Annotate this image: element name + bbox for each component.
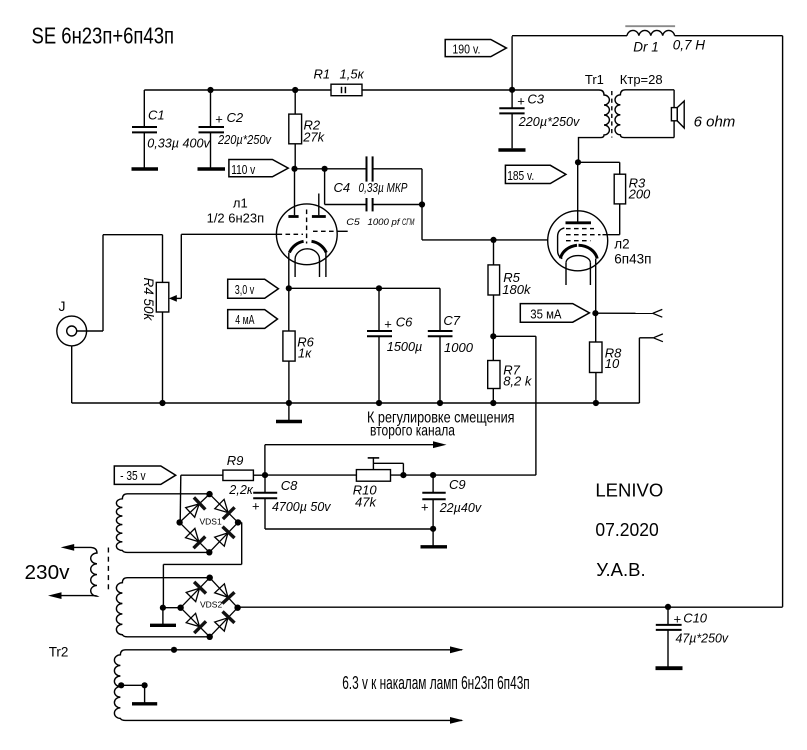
svg-text:VDS2: VDS2 — [200, 599, 222, 609]
node B+ junction C2 — [207, 87, 213, 93]
resistor R7 8,2k — [488, 336, 533, 403]
svg-text:220µ*250v: 220µ*250v — [518, 114, 581, 129]
ground symbol C9 — [421, 529, 448, 547]
capacitor C9 22µ40v — [421, 475, 483, 529]
label 07.2020 — [595, 519, 658, 540]
svg-text:C1: C1 — [148, 108, 165, 123]
svg-text:2,2к: 2,2к — [228, 482, 253, 497]
label второго канала — [370, 423, 455, 440]
svg-text:27k: 27k — [302, 130, 325, 145]
capacitor C4 0,33µ МКР — [334, 156, 423, 204]
wire grid row to L2 — [494, 239, 548, 241]
resistor R9 2,2к — [181, 453, 265, 497]
svg-text:+: + — [674, 611, 682, 626]
svg-text:J: J — [59, 298, 66, 314]
svg-text:+: + — [215, 112, 223, 127]
node ground rail at R8 — [593, 400, 599, 406]
node coupling junction — [419, 201, 425, 207]
flag label 3,0 v — [228, 279, 279, 298]
transformer Tr2 core — [107, 548, 109, 590]
flag label 185 v. — [505, 165, 566, 183]
transformer Tr2 primary 230v — [48, 544, 97, 599]
svg-text:+: + — [517, 93, 525, 108]
node 110v plate junction — [291, 166, 297, 172]
wire L1 grid feed — [177, 234, 278, 298]
capacitor C8 4700µ 50v — [252, 475, 433, 529]
transformer Tr1 primary — [512, 90, 609, 162]
svg-text:SE 6н23п+6п43п: SE 6н23п+6п43п — [32, 23, 175, 49]
heater winding center tap to ground — [118, 682, 157, 704]
label LENIVO — [595, 480, 663, 501]
svg-text:C3: C3 — [527, 92, 544, 107]
node ground rail at R4 — [159, 400, 165, 406]
svg-text:C7: C7 — [443, 313, 460, 328]
wire B+ row — [238, 606, 783, 608]
svg-text:второго канала: второго канала — [370, 423, 455, 440]
speaker 6 ohm — [671, 90, 735, 138]
svg-text:R4 50k: R4 50k — [141, 278, 156, 322]
svg-text:R9: R9 — [227, 453, 244, 468]
wire -35v to VDS1 minus — [179, 475, 182, 522]
flag label 4 мА — [228, 310, 278, 329]
wire VDS1 plus zigzag to ground node — [163, 522, 241, 607]
node ground rail at C7 — [437, 400, 443, 406]
node 185v junction — [575, 159, 581, 165]
potentiometer R10 47k — [353, 457, 433, 509]
transformer Tr2 secondary 1 — [116, 494, 209, 553]
transformer Tr1 core — [611, 91, 613, 138]
svg-text:220µ*250v: 220µ*250v — [217, 132, 272, 147]
wire ground rail — [163, 402, 640, 404]
svg-text:110 v: 110 v — [231, 163, 256, 177]
connector arrow out 1 — [653, 309, 663, 317]
svg-text:C2: C2 — [227, 110, 244, 125]
capacitor C1 0,33µ 400v — [132, 90, 211, 168]
svg-text:0,7 H: 0,7 H — [673, 37, 706, 52]
connector arrow out 2 — [653, 334, 663, 342]
svg-text:C9: C9 — [449, 477, 466, 492]
svg-text:R1: R1 — [314, 67, 331, 82]
label У.А.В. — [596, 559, 645, 580]
flag label 190 v. — [445, 40, 506, 57]
node ground rail at R7 — [490, 400, 496, 406]
transformer Tr2 heater winding 6.3v — [114, 650, 462, 721]
potentiometer R4 50k — [141, 235, 177, 403]
svg-text:6п43п: 6п43п — [614, 252, 651, 267]
wire cathode row — [289, 287, 440, 289]
svg-text:1000: 1000 — [444, 340, 474, 355]
label Tr2 — [49, 644, 69, 659]
transformer Tr1 secondary — [615, 90, 674, 138]
svg-text:10: 10 — [605, 356, 620, 371]
wire cathode to connector — [595, 312, 652, 314]
wire plate node to C4 branch — [295, 168, 367, 170]
svg-text:л2: л2 — [614, 236, 629, 251]
node C9 top — [430, 472, 436, 478]
node ground rail at C6 — [376, 400, 382, 406]
svg-text:У.А.В.: У.А.В. — [596, 559, 645, 580]
wire top rail left (C1 to R1) — [144, 89, 331, 91]
label Tr1 — [585, 72, 604, 87]
resistor R1 1,5к — [314, 67, 365, 96]
svg-text:1к: 1к — [298, 346, 312, 361]
ground C3 — [498, 148, 525, 151]
svg-text:185 v.: 185 v. — [507, 169, 534, 183]
wire bias out arrow — [265, 445, 434, 475]
resistor R5 180k — [488, 240, 532, 336]
svg-text:180k: 180k — [502, 282, 532, 297]
label Ктр=28 — [620, 72, 663, 87]
capacitor C2 220µ*250v — [199, 90, 273, 168]
svg-text:4700µ 50v: 4700µ 50v — [272, 499, 332, 514]
wire jack ground leg — [72, 346, 163, 403]
ground C10 — [656, 666, 683, 670]
wire jack to R4 top — [77, 235, 163, 331]
node L1 cathode — [286, 285, 292, 291]
svg-text:C6: C6 — [396, 314, 413, 329]
wire right rail — [782, 36, 784, 607]
node R10 wiper junction — [400, 472, 406, 478]
transformer Tr2 secondary 2 — [116, 578, 209, 637]
svg-text:47µ*250v: 47µ*250v — [676, 630, 730, 645]
svg-text:Tr1: Tr1 — [585, 72, 604, 87]
svg-text:LENIVO: LENIVO — [595, 480, 663, 501]
arrow to second channel — [433, 441, 447, 448]
label К регулировке смещения — [367, 409, 515, 426]
svg-text:07.2020: 07.2020 — [595, 519, 658, 540]
node 190v junction — [509, 87, 515, 93]
svg-text:1,5к: 1,5к — [340, 67, 365, 82]
capacitor C3 220µ*250v — [499, 90, 580, 148]
svg-text:0,33µ 400v: 0,33µ 400v — [147, 136, 211, 151]
capacitor C7 1000 — [428, 288, 474, 403]
node R5 top junction — [490, 237, 496, 243]
ground symbol main rail — [276, 403, 302, 422]
connector J input jack — [57, 298, 87, 346]
svg-text:4 мА: 4 мА — [235, 313, 255, 327]
svg-text:1000 pf: 1000 pf — [368, 217, 402, 227]
node C10 junction — [665, 604, 671, 610]
svg-text:1/2 6н23п: 1/2 6н23п — [207, 210, 265, 225]
svg-text:C4: C4 — [334, 180, 351, 195]
node B+ junction R2 — [292, 87, 298, 93]
svg-text:Dr 1: Dr 1 — [633, 39, 659, 54]
node C9 bottom — [430, 526, 436, 532]
ground symbol VDS bridges — [150, 608, 176, 626]
tube L2 beam tetrode 6п43п — [548, 162, 652, 313]
svg-text:0,33µ МКР: 0,33µ МКР — [359, 180, 408, 195]
capacitor C6 1500µ — [367, 288, 422, 403]
ground C2 — [198, 167, 226, 170]
resistor R3 200 — [578, 162, 651, 234]
svg-text:л1: л1 — [233, 196, 248, 211]
svg-text:8,2 k: 8,2 k — [503, 374, 533, 389]
rectifier bridge VDS1 — [176, 491, 241, 556]
svg-text:22µ40v: 22µ40v — [439, 500, 483, 515]
label 6.3v heater — [342, 673, 530, 693]
svg-text:190 v.: 190 v. — [452, 42, 480, 56]
label 230v — [25, 561, 71, 584]
svg-text:VDS1: VDS1 — [200, 517, 222, 527]
svg-text:C5: C5 — [346, 217, 361, 227]
node R5/R7 bias junction — [490, 333, 496, 339]
wire rail to connector 2 — [639, 338, 653, 403]
svg-text:Ктр=28: Ктр=28 — [620, 72, 663, 87]
wire C5 branch down — [325, 169, 367, 205]
node C6 top — [376, 285, 382, 291]
flag label 110 v — [229, 160, 288, 177]
svg-text:+: + — [384, 317, 392, 332]
resistor R2 27k — [289, 90, 326, 169]
svg-text:- 35 v: - 35 v — [120, 469, 146, 483]
svg-text:200: 200 — [628, 187, 651, 202]
resistor R8 10 — [590, 313, 623, 403]
svg-text:3,0 v: 3,0 v — [235, 283, 255, 297]
title SE 6н23п+6п43п — [32, 23, 175, 49]
svg-text:6.3 v к накалам ламп 6н23п 6: 6.3 v к накалам ламп 6н23п 6п43п — [342, 673, 530, 693]
node 35мА cathode junction — [592, 310, 598, 316]
svg-text:230v: 230v — [25, 561, 71, 584]
node ground rail at R6 — [286, 400, 292, 406]
node heater row — [171, 647, 177, 653]
capacitor C10 47µ*250v — [656, 607, 730, 666]
svg-text:+: + — [252, 499, 260, 514]
wire C9 to bias feed — [433, 474, 536, 476]
node R9/C8 junction — [262, 472, 268, 478]
svg-text:35 мА: 35 мА — [530, 307, 562, 321]
wire top rail mid (R1 to Tr1 node) — [362, 89, 512, 91]
arrow heater bottom — [450, 717, 464, 724]
arrow heater top — [450, 646, 464, 653]
svg-text:1500µ: 1500µ — [387, 339, 423, 354]
node C4/C5 branch — [322, 166, 328, 172]
flag label -35 v — [114, 466, 175, 484]
wire coupling to grid row — [422, 205, 494, 240]
ground C1 — [132, 167, 159, 170]
node VDS2 ground junction — [160, 605, 181, 611]
wire R9 to R10 — [265, 474, 356, 476]
resistor R6 1к — [283, 288, 315, 403]
svg-text:C10: C10 — [683, 611, 708, 626]
wire bias feed down — [493, 336, 536, 475]
wire 190v node to top — [511, 36, 513, 90]
flag label 35 мА — [520, 304, 589, 323]
svg-text:Tr2: Tr2 — [49, 644, 69, 659]
tube L1 triode 1/2 6н23п — [207, 169, 348, 288]
inductor Dr1 0,7H choke — [512, 26, 783, 54]
svg-text:+: + — [421, 500, 429, 515]
rectifier bridge VDS2 — [177, 575, 240, 641]
svg-text:6 ohm: 6 ohm — [694, 113, 736, 130]
capacitor C5 1000pf СГМ — [346, 198, 422, 227]
svg-text:СГМ: СГМ — [402, 217, 415, 227]
svg-text:47k: 47k — [355, 494, 377, 509]
svg-text:C8: C8 — [281, 478, 298, 493]
